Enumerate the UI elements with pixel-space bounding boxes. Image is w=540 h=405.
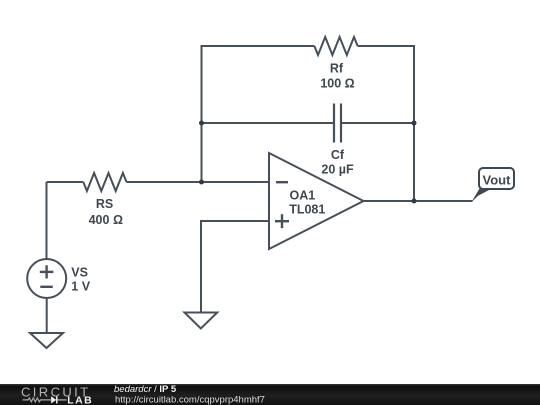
junction node at output (412, 199, 417, 204)
resistor RS (83, 173, 126, 191)
Vout flag (472, 168, 515, 202)
op-amp OA1 triangle (269, 153, 364, 249)
wire output (364, 200, 473, 202)
junction node at feedback/cap left (199, 121, 204, 126)
resistor Rf (314, 37, 357, 55)
voltage source VS (27, 259, 66, 298)
svg-text:TL081: TL081 (289, 202, 325, 216)
op-amp plus pin symbol (275, 214, 289, 228)
svg-text:LAB: LAB (67, 394, 93, 405)
svg-text:100 Ω: 100 Ω (320, 76, 354, 90)
svg-text:RS: RS (96, 197, 113, 211)
wire op-amp plus input (201, 221, 269, 313)
wire top feedback left segment (202, 46, 315, 181)
wire input left (47, 181, 84, 183)
capacitor Cf (334, 104, 341, 143)
footer bar (0, 384, 540, 405)
svg-text:OA1: OA1 (290, 188, 316, 202)
VS plus symbol (40, 265, 54, 278)
ground (below VS) (30, 333, 63, 348)
wire top feedback right segment (358, 46, 414, 200)
ground (below op-amp) (185, 313, 218, 329)
svg-text:Rf: Rf (330, 62, 344, 76)
logo diode (51, 396, 66, 403)
svg-text:400 Ω: 400 Ω (89, 213, 123, 227)
wire capacitor branch left (203, 122, 335, 124)
wire capacitor branch right (341, 122, 413, 124)
VS minus symbol (40, 286, 53, 288)
wire VS top (46, 182, 48, 259)
svg-text:Vout: Vout (483, 173, 512, 188)
svg-text:http://circuitlab.com/cqpvprp4: http://circuitlab.com/cqpvprp4hmhf7 (115, 394, 265, 405)
svg-text:VS: VS (71, 266, 88, 280)
wire input to op-amp minus (127, 181, 270, 183)
wire VS bottom (46, 298, 48, 333)
op-amp minus pin symbol (276, 181, 288, 183)
junction node at cap right (412, 121, 417, 126)
svg-text:20 µF: 20 µF (321, 163, 354, 177)
junction node at input (199, 180, 204, 185)
svg-text:Cf: Cf (331, 148, 345, 162)
svg-text:1 V: 1 V (71, 280, 90, 294)
svg-text:bedardcr / IP 5: bedardcr / IP 5 (114, 384, 177, 395)
logo resistor squiggle (23, 398, 51, 402)
